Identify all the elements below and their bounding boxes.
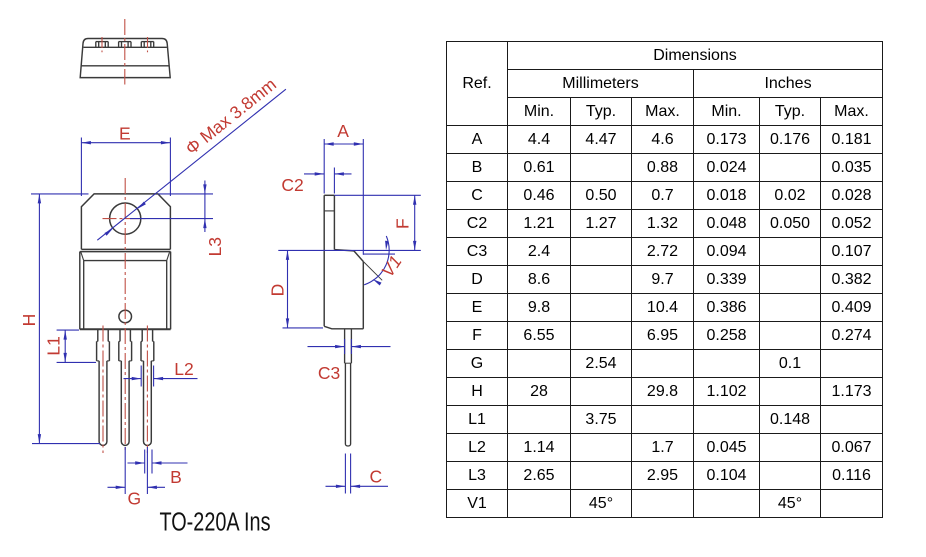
svg-text:L2: L2 (174, 359, 193, 379)
svg-text:G: G (127, 489, 141, 509)
svg-text:Φ Max 3.8mm: Φ Max 3.8mm (181, 74, 280, 159)
svg-text:L1: L1 (44, 336, 64, 355)
svg-text:E: E (119, 123, 131, 143)
svg-text:TO-220A Ins: TO-220A Ins (160, 509, 271, 537)
svg-text:B: B (170, 467, 182, 487)
svg-text:L3: L3 (205, 237, 225, 256)
svg-text:V1: V1 (377, 252, 406, 281)
svg-text:D: D (268, 284, 288, 297)
svg-text:C: C (369, 467, 382, 487)
svg-text:C3: C3 (318, 363, 340, 383)
svg-text:H: H (19, 314, 39, 327)
svg-text:F: F (393, 218, 413, 229)
svg-text:A: A (337, 121, 349, 141)
svg-text:C2: C2 (281, 175, 303, 195)
